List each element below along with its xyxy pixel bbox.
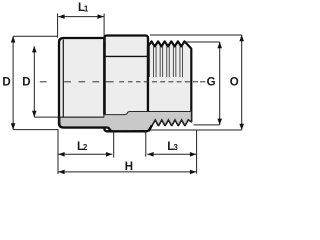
svg-text:2: 2: [83, 143, 88, 152]
sectioned wall: gray band along bottom: [60, 112, 191, 132]
threaded spigot body: [148, 41, 191, 130]
svg-text:D: D: [2, 77, 10, 89]
fitting body: collar section: [104, 36, 148, 132]
dimension G (thread): [185, 42, 220, 125]
fitting body: socket section: [59, 38, 105, 128]
socket internal end face line: [103, 37, 105, 115]
thread flank lines: [149, 46, 182, 77]
svg-text:H: H: [125, 161, 133, 173]
svg-text:3: 3: [173, 143, 178, 152]
dimension D (bore, inner): [34, 46, 104, 117]
svg-text:G: G: [207, 77, 216, 89]
centerline: [40, 81, 206, 83]
dimension L1: [58, 14, 105, 42]
socket mouth face ring line: [62, 40, 64, 118]
dimension H: [58, 130, 197, 174]
svg-text:1: 1: [84, 5, 89, 14]
svg-text:O: O: [230, 77, 239, 89]
dimension L2: [58, 133, 113, 158]
collar/thread boundary: [147, 36, 149, 65]
dimension D (outer, left): [13, 36, 58, 129]
dimension O (collar): [150, 35, 242, 130]
svg-text:D: D: [22, 77, 30, 89]
hex edge line (top): [104, 55, 148, 57]
dimension L3: [146, 133, 196, 157]
bottom thick outline over gray band: [59, 123, 152, 131]
